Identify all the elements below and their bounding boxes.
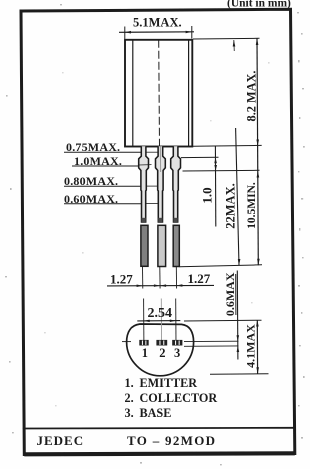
svg-text:1.: 1.: [125, 376, 134, 390]
svg-text:1.0: 1.0: [200, 187, 215, 203]
dimension 4.1MAX line with arrows: [256, 320, 258, 374]
dimension 2.54 extension lines: [143, 299, 145, 344]
svg-text:2: 2: [159, 346, 165, 360]
svg-text:1: 1: [142, 346, 148, 360]
pin 1 pad (bottom view): [139, 340, 148, 346]
body center line (dashed): [158, 40, 161, 147]
bottom frame thick edge: [24, 453, 295, 454]
dimension 1.0 line with arrows: [214, 146, 216, 227]
svg-text:2.54: 2.54: [148, 306, 173, 321]
svg-text:0.80MAX.: 0.80MAX.: [64, 174, 118, 188]
pin 3 pad (bottom view): [172, 340, 182, 346]
table top rule: [23, 427, 294, 430]
extension line package bottom (for 4.1MAX): [210, 373, 269, 376]
svg-text:TO – 92MOD: TO – 92MOD: [127, 433, 216, 448]
leader lines pin3 thickness (for 0.6MAX): [184, 340, 239, 342]
dimension 0.6MAX line with arrows: [236, 271, 239, 360]
lead 2 upper (collector) outline: [156, 146, 166, 222]
svg-text:22MAX.: 22MAX.: [224, 183, 238, 228]
svg-text:EMITTER: EMITTER: [140, 376, 198, 390]
svg-text:10.5MIN.: 10.5MIN.: [246, 182, 258, 229]
svg-text:1.27: 1.27: [110, 272, 133, 287]
svg-text:BASE: BASE: [140, 406, 172, 420]
lead tip extension lines down (for 1.27): [142, 267, 144, 289]
extension line package flat top (for 4.1MAX): [184, 319, 262, 322]
bottom view package outline (D shape): [127, 324, 194, 376]
lead 3 lower segment: [173, 225, 179, 266]
extension line bulge top right (for 1.0 dim): [181, 156, 219, 158]
svg-text:2.: 2.: [125, 391, 134, 405]
body inner right line: [188, 40, 190, 147]
lead 1 upper (emitter) outline: [139, 146, 149, 222]
extension line body bottom right (for 8.2): [193, 144, 262, 147]
dimension 1.27 line: [107, 284, 214, 287]
lead 2 center line (gray): [159, 147, 161, 173]
lead 1 lower segment: [141, 225, 148, 266]
svg-text:3.: 3.: [125, 406, 134, 420]
svg-text:4.1MAX: 4.1MAX: [244, 324, 258, 368]
body inner left line: [132, 40, 134, 147]
svg-text:1.27: 1.27: [188, 271, 211, 286]
svg-text:3: 3: [174, 346, 180, 360]
dimension 8.2MAX / 10.5MIN line: [257, 39, 258, 266]
lead 3 upper (base) outline: [171, 146, 181, 222]
lead 2 lower segment: [158, 225, 166, 266]
dimension 5.1MAX line with arrows: [119, 31, 194, 34]
extension line body top right (for 8.2/22): [193, 37, 260, 40]
svg-text:COLLECTOR: COLLECTOR: [140, 391, 218, 405]
dimension 22MAX line: [233, 40, 236, 51]
svg-text:5.1MAX.: 5.1MAX.: [133, 16, 182, 30]
dimension 5.1MAX extension lines: [124, 27, 126, 40]
svg-text:0.6MAX: 0.6MAX: [223, 272, 237, 316]
extension line bulge bottom right (for 1.0 and 10.5): [183, 169, 260, 172]
extension line lead tips (for 22/10.5): [180, 265, 263, 267]
body outline (front view): [125, 40, 192, 147]
svg-text:JEDEC: JEDEC: [37, 433, 85, 448]
svg-text:8.2 MAX.: 8.2 MAX.: [244, 71, 258, 122]
dimension 2.54 line with arrows: [137, 320, 180, 322]
left tick mark on package outline: [122, 341, 131, 343]
pin 2 pad (bottom view): [156, 340, 167, 346]
